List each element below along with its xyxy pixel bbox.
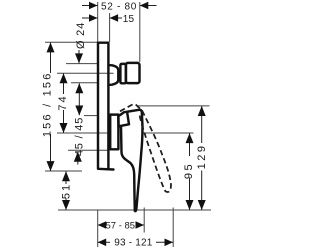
svg-text:93 - 121: 93 - 121	[114, 238, 153, 249]
svg-text:57 - 85: 57 - 85	[106, 220, 136, 231]
svg-text:129: 129	[196, 144, 208, 170]
svg-text:74: 74	[57, 94, 69, 110]
svg-text:15: 15	[123, 14, 135, 25]
svg-text:45 / 45: 45 / 45	[74, 117, 86, 156]
svg-text:156 / 156: 156 / 156	[42, 71, 54, 137]
svg-text:Ø 24: Ø 24	[75, 22, 87, 49]
svg-text:95: 95	[183, 162, 195, 179]
svg-text:52 - 80: 52 - 80	[101, 2, 137, 13]
svg-text:51: 51	[61, 183, 73, 199]
